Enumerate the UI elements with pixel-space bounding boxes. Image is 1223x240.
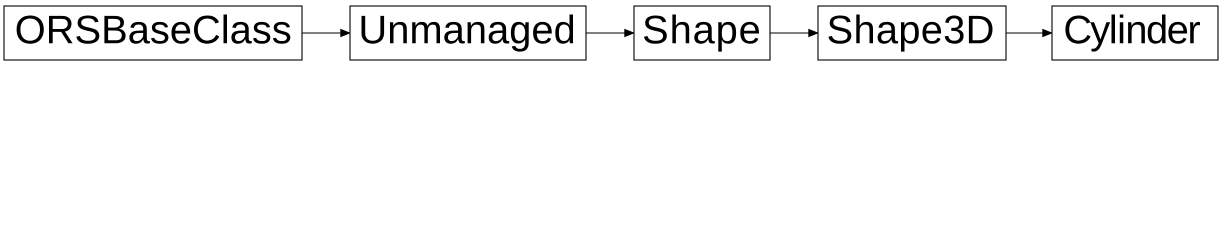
node Unmanaged box bbox=[350, 6, 586, 60]
node Shape box bbox=[634, 6, 770, 60]
wire arrow ORSBaseClass to Unmanaged bbox=[302, 30, 350, 37]
node Unmanaged label bbox=[362, 15, 574, 52]
node Shape3D label bbox=[828, 15, 992, 52]
node Shape3D box bbox=[818, 6, 1006, 60]
node ORSBaseClass box bbox=[4, 6, 302, 60]
wire arrow Shape3D to Cylinder bbox=[1006, 30, 1052, 37]
wire arrow Unmanaged to Shape bbox=[586, 30, 634, 37]
node Cylinder label bbox=[1065, 15, 1200, 52]
node ORSBaseClass label bbox=[17, 15, 291, 44]
wire arrow Shape to Shape3D bbox=[770, 30, 818, 37]
node Shape label bbox=[644, 15, 759, 52]
node Cylinder box bbox=[1052, 6, 1218, 60]
